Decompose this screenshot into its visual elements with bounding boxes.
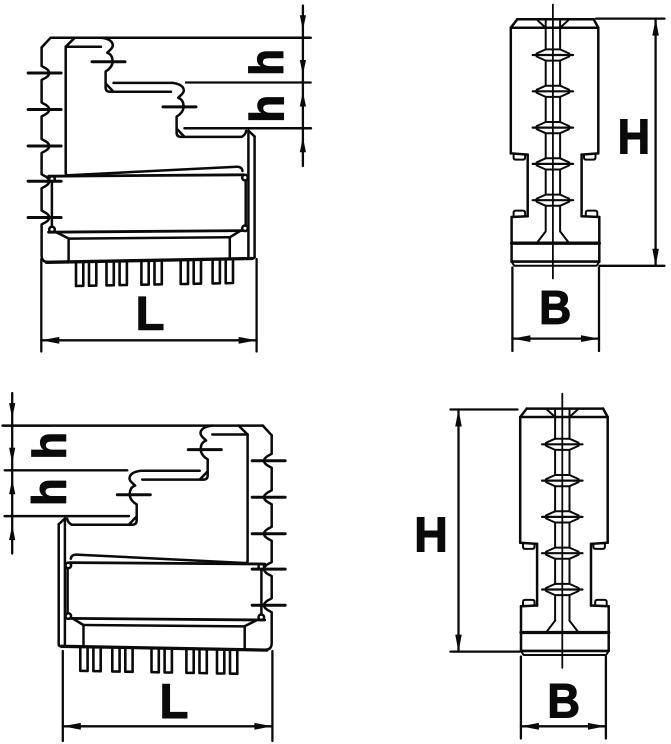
label L (view1) — [139, 297, 163, 330]
label h lower (view1) — [249, 98, 284, 120]
lower outer sides — [520, 606, 523, 631]
label L (view3) — [163, 684, 187, 718]
dim-line h (view1) — [302, 6, 304, 167]
dim-line L (view1) — [40, 259, 42, 352]
upper body bottom edge — [66, 167, 243, 175]
mounting tooth 2 — [107, 261, 114, 285]
dim-line B (view2) — [511, 268, 513, 352]
channel entry chamfers — [547, 410, 555, 418]
base top line — [521, 631, 609, 634]
step surface 3 — [181, 136, 242, 139]
jaw front view (view 4) — [520, 394, 609, 668]
dim-line H (view4) — [457, 410, 459, 652]
label h lower (view3) — [31, 481, 66, 503]
serration ticks on clamping edge — [28, 73, 61, 218]
serrated clamping edge — [42, 48, 50, 262]
jaw front view (view 2) — [511, 5, 600, 279]
top chamfer — [42, 38, 51, 48]
right face — [242, 131, 247, 137]
top inner edge — [66, 45, 101, 48]
centerline — [552, 5, 554, 279]
waist sides — [526, 155, 529, 217]
channel entry chamfers — [538, 20, 546, 28]
waist sides — [536, 544, 539, 606]
serrated channel — [545, 19, 547, 49]
mounting tooth 4 — [181, 260, 188, 284]
centerline — [561, 394, 563, 668]
guide tongue band — [49, 175, 244, 176]
extension line h2 (view1) — [186, 81, 311, 83]
extension lines H (view2) — [596, 17, 665, 19]
extension lines H (view4) — [451, 408, 518, 410]
top cap — [527, 407, 603, 410]
base block — [510, 243, 513, 261]
step 1 face — [102, 38, 113, 92]
mounting tooth 1 — [76, 262, 83, 286]
label H (view2) — [621, 120, 648, 154]
mounting tooth 5 — [213, 259, 220, 283]
label H (view4) — [417, 518, 444, 552]
label B (view4) — [550, 684, 578, 717]
dim-line H (view2) — [654, 19, 656, 266]
bottom edge — [47, 259, 253, 263]
lower step shoulders with relief grooves — [512, 215, 528, 218]
upper step shoulders with relief grooves — [520, 543, 537, 544]
upper step shoulders with relief grooves — [511, 153, 528, 154]
dim-line B (view4) — [520, 657, 522, 739]
mounting tooth 3 — [141, 261, 148, 285]
extension line h2 (view3) — [5, 469, 128, 471]
lower chamfer and stem — [69, 237, 230, 238]
upper outer sides — [510, 28, 513, 154]
base block — [520, 633, 523, 651]
label h upper (view3) — [32, 435, 66, 457]
top edge — [51, 37, 311, 40]
jaw side view mirrored, steps facing left (view 3) — [3, 426, 286, 674]
extension line h3 (view3) — [5, 515, 129, 518]
serration tick step 2 — [163, 105, 196, 108]
upper outer sides — [519, 417, 522, 543]
step 2 face — [173, 83, 184, 137]
jaw side view, steps facing right (view 1) — [28, 38, 311, 286]
label h upper (view1) — [249, 52, 283, 73]
dim-line L (view3) — [62, 651, 64, 741]
serration teeth lenses — [555, 438, 569, 440]
extension line h3 / surface3 top (view1) — [185, 127, 311, 130]
base top line — [512, 242, 600, 245]
step surface 2 — [110, 91, 171, 94]
dim-line h (view3) — [11, 393, 13, 554]
lower step shoulders with relief grooves — [521, 604, 537, 607]
label B (view2) — [542, 291, 569, 324]
front face edge — [64, 47, 67, 173]
lower outer sides — [510, 217, 513, 242]
extension line h1 (view3) — [5, 424, 51, 426]
serration tick step 1 — [92, 60, 125, 63]
serration teeth lenses — [546, 48, 560, 50]
top cap — [517, 18, 593, 21]
serrated channel — [554, 409, 556, 439]
